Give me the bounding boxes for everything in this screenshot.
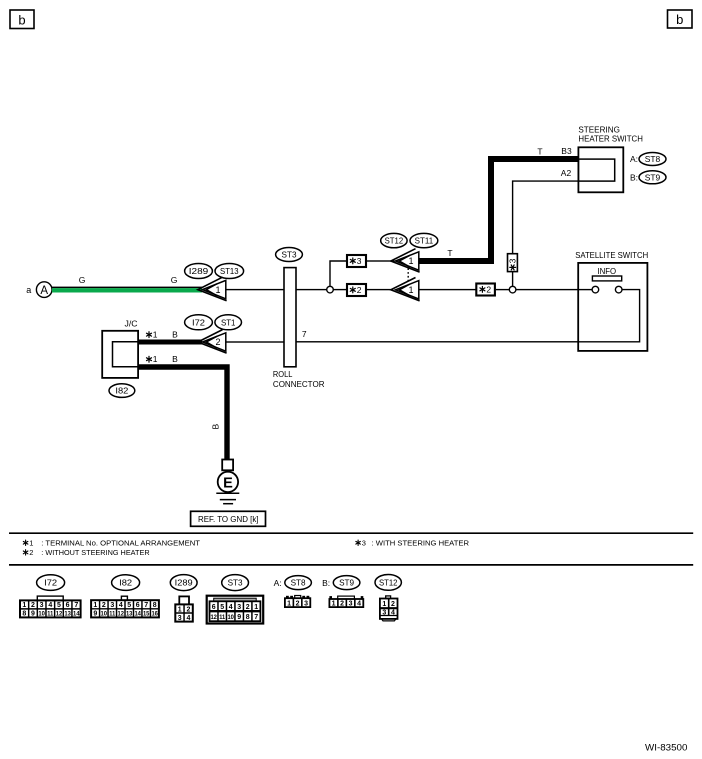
svg-text:ST12: ST12 (379, 577, 398, 587)
svg-text:6: 6 (136, 602, 140, 609)
connector ST12 oval (381, 233, 407, 247)
svg-text:1: 1 (178, 606, 182, 613)
svg-text:5: 5 (127, 602, 131, 609)
svg-text:I289: I289 (189, 266, 209, 276)
svg-text:1: 1 (287, 600, 291, 607)
label *1 upper (147, 330, 158, 340)
label steering heater switch (578, 125, 643, 144)
mechanical link dotted (407, 268, 409, 281)
wire B thick to ground (138, 367, 227, 460)
wire *3 to arrow ST11 (366, 260, 395, 261)
svg-text:3: 3 (357, 256, 362, 266)
svg-text:ST11: ST11 (415, 236, 434, 246)
svg-text:ST3: ST3 (282, 250, 297, 260)
svg-text:13: 13 (126, 612, 133, 618)
node A (36, 282, 52, 298)
svg-text:10: 10 (227, 615, 234, 621)
connector I72 oval (185, 315, 213, 330)
wire A2 from *3 box to switch (513, 181, 579, 254)
connector pinout A: ST8 (274, 576, 312, 608)
svg-text:CONNECTOR: CONNECTOR (273, 379, 325, 389)
svg-text:12: 12 (210, 615, 217, 621)
info button bar (592, 276, 621, 281)
connector I82 oval (109, 384, 135, 398)
svg-text:4: 4 (186, 615, 190, 622)
svg-text:2: 2 (186, 606, 190, 613)
label *2 box right (476, 284, 495, 296)
svg-text:13: 13 (64, 612, 71, 618)
svg-text:3: 3 (508, 258, 518, 263)
svg-text:: WITHOUT STEERING HEATER: : WITHOUT STEERING HEATER (41, 548, 150, 557)
svg-text:ROLL: ROLL (273, 369, 293, 379)
svg-text:2: 2 (246, 604, 250, 611)
svg-text:T: T (447, 248, 452, 258)
svg-text:1: 1 (153, 354, 158, 364)
wire junction right to satellite contact (516, 289, 592, 290)
wire B thick J/C to arrow ST1 (138, 340, 202, 345)
connector arrow ST11 pin 1 (391, 249, 420, 272)
svg-text:7: 7 (74, 602, 78, 609)
connector pinout I72 (20, 575, 81, 618)
svg-text:1: 1 (254, 604, 258, 611)
svg-text:1: 1 (408, 285, 413, 295)
frame marker b left (10, 10, 34, 29)
note *3 (356, 538, 470, 547)
satellite switch contact left (592, 286, 599, 293)
svg-text:3: 3 (304, 600, 308, 607)
svg-text:1: 1 (408, 256, 413, 266)
svg-text:3: 3 (349, 601, 353, 608)
connector pinout B: ST9 (322, 576, 363, 608)
svg-text:I72: I72 (44, 578, 57, 588)
connector arrow ST1 pin 2 (198, 330, 227, 354)
junction node right (509, 286, 516, 293)
svg-text:4: 4 (391, 609, 395, 616)
label *3 box left (347, 255, 366, 267)
svg-text:2: 2 (215, 337, 220, 347)
svg-text:ST1: ST1 (221, 317, 236, 327)
svg-text:2: 2 (340, 601, 344, 608)
wire *2 right to junction right (496, 289, 509, 290)
svg-text:9: 9 (31, 611, 35, 618)
svg-text:I82: I82 (115, 386, 128, 396)
svg-text:2: 2 (31, 602, 35, 609)
svg-text:B:: B: (322, 578, 330, 588)
svg-text:WI-83500: WI-83500 (645, 742, 687, 752)
svg-text:10: 10 (38, 612, 45, 618)
connector ST3 oval (276, 248, 303, 262)
wire ST13 to roll connector (226, 289, 284, 290)
wire branch up to *3 (330, 261, 347, 286)
svg-text:INFO: INFO (597, 266, 616, 276)
connector pinout ST12 (375, 575, 401, 621)
svg-text:HEATER SWITCH: HEATER SWITCH (578, 134, 643, 144)
svg-text:: WITH STEERING HEATER: : WITH STEERING HEATER (372, 538, 470, 547)
svg-text:I82: I82 (119, 578, 132, 588)
svg-text:G: G (171, 275, 178, 285)
svg-text:ST12: ST12 (385, 236, 404, 246)
note *2 (23, 548, 150, 557)
svg-text:7: 7 (144, 602, 148, 609)
svg-text:7: 7 (302, 329, 307, 339)
svg-text:3: 3 (237, 604, 241, 611)
junction box J/C outer (102, 331, 138, 378)
ground connector square (222, 460, 233, 471)
svg-text:1: 1 (382, 601, 386, 608)
connector ref A: ST8 (630, 153, 666, 166)
svg-text:16: 16 (151, 612, 158, 618)
svg-text:14: 14 (73, 612, 80, 618)
svg-text:3: 3 (110, 602, 114, 609)
svg-text:B: B (211, 424, 221, 430)
satellite switch contact right (615, 286, 622, 293)
svg-text:2: 2 (29, 548, 33, 557)
svg-text:ST13: ST13 (220, 266, 239, 276)
svg-text:B: B (172, 330, 178, 340)
svg-text:2: 2 (357, 285, 362, 295)
svg-text:I289: I289 (175, 578, 193, 588)
wire arrow lower to *2 right (419, 289, 477, 290)
svg-text:a: a (26, 285, 31, 295)
svg-text:9: 9 (237, 614, 241, 621)
connector pinout ST3 (207, 575, 264, 624)
svg-text:E: E (223, 475, 233, 491)
svg-text:12: 12 (118, 612, 125, 618)
label ref to gnd box (191, 511, 266, 526)
svg-text:5: 5 (57, 602, 61, 609)
note *1 (23, 538, 200, 547)
separator line bottom (9, 564, 693, 566)
svg-text:A2: A2 (561, 168, 572, 178)
wire satellite internal (578, 290, 639, 342)
connector pinout I82 (91, 575, 159, 618)
connector pinout I289 (170, 575, 197, 622)
svg-text:8: 8 (22, 611, 26, 618)
connector I289 oval (185, 264, 213, 279)
svg-text:B:: B: (630, 172, 638, 182)
connector arrow ST13 pin 1 (198, 277, 227, 301)
label *2 box left (347, 284, 366, 296)
connector ref B: ST9 (630, 171, 666, 184)
svg-text:4: 4 (119, 602, 123, 609)
connector ST13 oval (215, 264, 244, 279)
svg-text:T: T (537, 147, 542, 157)
svg-text:A:: A: (274, 578, 282, 588)
svg-text:A:: A: (630, 154, 638, 164)
svg-text:3: 3 (362, 538, 366, 547)
svg-text:A: A (40, 285, 48, 297)
wire T thick from ST11 to steering heater switch (419, 159, 579, 261)
svg-text:ST8: ST8 (645, 154, 661, 164)
svg-text:12: 12 (56, 612, 63, 618)
svg-text:4: 4 (229, 604, 233, 611)
svg-text:9: 9 (93, 611, 97, 618)
connector ST1 oval (215, 315, 242, 330)
separator line top (9, 532, 693, 534)
svg-text:ST9: ST9 (645, 172, 661, 182)
svg-text:1: 1 (153, 330, 158, 340)
svg-text:ST8: ST8 (291, 578, 306, 588)
svg-text:11: 11 (47, 612, 54, 618)
roll connector ST3 bar (284, 268, 296, 367)
svg-text:2: 2 (486, 284, 491, 294)
wire roll connector to junction (296, 289, 327, 290)
svg-text:7: 7 (254, 614, 258, 621)
steering heater switch inner box (578, 159, 614, 181)
svg-text:8: 8 (153, 602, 157, 609)
connector ST11 oval (410, 233, 438, 247)
svg-text:8: 8 (246, 614, 250, 621)
svg-text:6: 6 (212, 604, 216, 611)
svg-text:1: 1 (215, 285, 220, 295)
label roll connector (273, 369, 325, 389)
label *1 lower (147, 354, 158, 364)
ground E circle (218, 472, 238, 492)
svg-text:5: 5 (220, 604, 224, 611)
svg-text:3: 3 (382, 609, 386, 616)
svg-text:14: 14 (134, 612, 141, 618)
svg-text:1: 1 (93, 602, 97, 609)
label *3 box right vertical (508, 254, 518, 272)
junction node left (327, 286, 334, 293)
wire arrow ST1 to roll connector (226, 341, 284, 342)
svg-text:B: B (172, 354, 178, 364)
svg-text:4: 4 (357, 601, 361, 608)
svg-text:2: 2 (102, 602, 106, 609)
svg-text:2: 2 (296, 600, 300, 607)
svg-text:B3: B3 (561, 146, 572, 156)
svg-text:G: G (79, 275, 86, 285)
connector arrow lower pin 1 (391, 278, 420, 301)
wire junction to *2 left (333, 289, 347, 290)
svg-text:REF. TO GND [k]: REF. TO GND [k] (198, 514, 259, 524)
junction box J/C inner (113, 342, 139, 367)
svg-text:11: 11 (219, 615, 226, 621)
svg-text:2: 2 (391, 601, 395, 608)
wire satellite to roll connector pin 7 (296, 341, 578, 342)
svg-text:6: 6 (66, 602, 70, 609)
svg-text:10: 10 (101, 612, 108, 618)
steering heater switch outer box (578, 147, 623, 192)
svg-text:1: 1 (29, 538, 33, 547)
svg-text:SATELLITE SWITCH: SATELLITE SWITCH (575, 250, 648, 260)
svg-text:15: 15 (143, 612, 150, 618)
svg-text:ST3: ST3 (228, 578, 243, 588)
svg-text:b: b (676, 12, 683, 27)
ground lines (216, 493, 239, 503)
svg-text:b: b (18, 13, 25, 28)
svg-text:1: 1 (332, 601, 336, 608)
svg-text:J/C: J/C (125, 319, 138, 329)
svg-text:3: 3 (40, 602, 44, 609)
frame marker b right (668, 10, 693, 28)
svg-text:4: 4 (48, 602, 52, 609)
satellite switch box (578, 263, 647, 351)
svg-text:3: 3 (178, 615, 182, 622)
wire *2 to arrow lower (366, 289, 391, 290)
wire A2 branch up from junction (512, 272, 514, 287)
svg-text:I72: I72 (192, 317, 205, 327)
svg-text:1: 1 (22, 602, 26, 609)
svg-text:ST9: ST9 (339, 578, 354, 588)
svg-text:11: 11 (109, 612, 116, 618)
svg-text:: TERMINAL No. OPTIONAL ARRANG: : TERMINAL No. OPTIONAL ARRANGEMENT (41, 538, 200, 547)
wire G green from node A to arrow ST13 (52, 287, 202, 293)
